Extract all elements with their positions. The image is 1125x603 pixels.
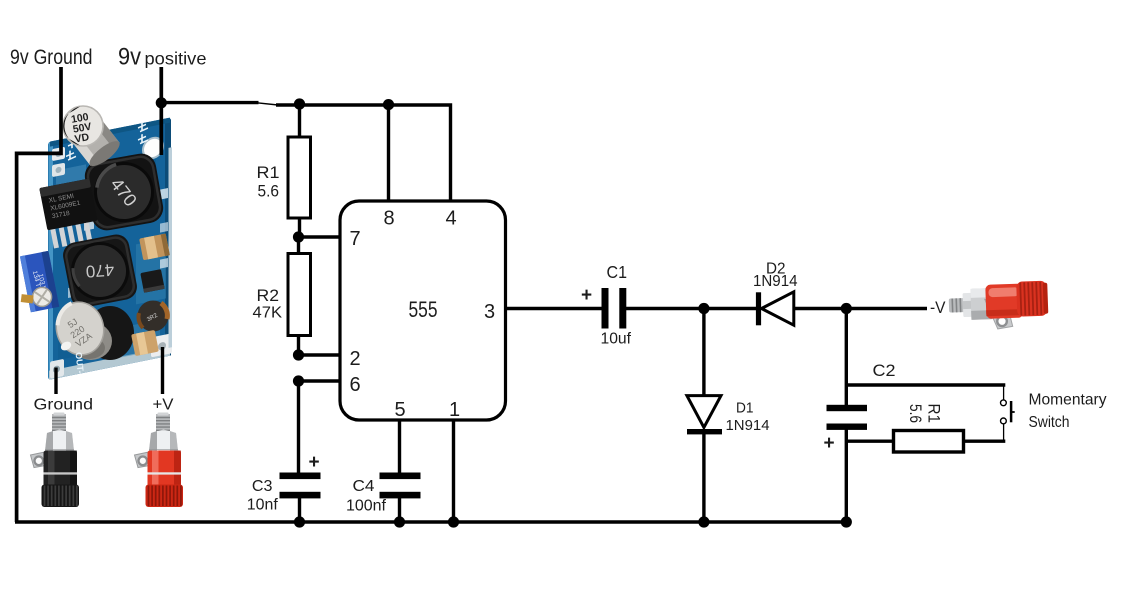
capacitor C4 plates <box>380 473 421 480</box>
trace patches <box>56 164 86 196</box>
svg-text:D1: D1 <box>736 400 754 417</box>
pad bottom-right <box>151 333 172 357</box>
wire C2 bottom branch to R1b <box>846 440 893 443</box>
resistor R1b (5.6 output) <box>894 431 964 453</box>
label R1b rotated <box>906 404 944 424</box>
svg-text:1N914: 1N914 <box>753 273 798 290</box>
wire R2 top lead <box>297 237 300 254</box>
svg-text:+: + <box>581 285 592 306</box>
wire pin 7 <box>299 235 341 238</box>
svg-text:9v: 9v <box>118 44 141 71</box>
node pin2 <box>293 349 304 360</box>
svg-text:R1: R1 <box>257 163 280 182</box>
wire C2 bottom lead to rail <box>845 430 848 523</box>
wire 9v positive drop <box>159 67 163 155</box>
wire C4 bottom lead <box>398 498 401 522</box>
wire R1 bottom lead <box>298 218 301 237</box>
black chip right <box>140 269 164 293</box>
svg-text:C3: C3 <box>252 478 273 495</box>
op-amp/timer IC U1 555 <box>340 201 506 420</box>
right edge pads <box>160 188 168 200</box>
wire C2 top lead <box>845 309 848 406</box>
wire pin 8 drop <box>387 105 390 201</box>
capacitor photo 220uF bottom <box>51 297 134 360</box>
wire pin6 node down to C3 <box>297 381 300 473</box>
svg-text:7: 7 <box>350 228 361 250</box>
svg-text:C4: C4 <box>353 478 375 495</box>
svg-text:+: + <box>824 433 835 454</box>
wire D1 top lead <box>702 309 705 397</box>
node R1 top <box>294 98 305 109</box>
pad bottom-left <box>50 359 64 379</box>
node rail C3 <box>294 516 305 527</box>
pads top-left <box>52 147 65 162</box>
resistor R1 (5.6) <box>288 137 311 218</box>
node pin6 <box>293 375 304 386</box>
wire node to D2 <box>704 307 757 310</box>
node D2/C2/-V <box>841 303 852 314</box>
IC XL6009 <box>39 178 101 249</box>
binding post Ground (black) <box>31 413 80 508</box>
wire pin 1 down to rail <box>452 420 455 522</box>
binding post +V (red) <box>135 413 184 508</box>
svg-text:5.6: 5.6 <box>258 183 280 201</box>
diode D1 (vertical) <box>687 396 722 435</box>
wire R1 top lead <box>298 103 301 137</box>
capacitor C1 plates <box>602 288 609 329</box>
wire 9v ground (down, left, down to bottom rail) <box>17 67 61 522</box>
svg-text:+: + <box>309 452 320 473</box>
svg-text:10uf: 10uf <box>601 331 632 348</box>
svg-text:Switch: Switch <box>1029 414 1070 431</box>
svg-text:+V: +V <box>153 397 174 414</box>
svg-text:positive: positive <box>145 49 207 69</box>
inductor 470 bottom <box>61 232 139 310</box>
wire C3 bottom lead <box>298 498 301 522</box>
switch SW1 momentary <box>1001 400 1015 424</box>
inductor 470 top <box>82 151 165 232</box>
wire node2 to -V terminal <box>846 307 927 310</box>
svg-text:100nf: 100nf <box>346 498 387 515</box>
resistor R2 (47K) <box>288 254 311 336</box>
svg-text:47K: 47K <box>253 305 283 322</box>
wire D1 bottom lead to rail <box>702 430 705 522</box>
svg-text:5.6: 5.6 <box>906 404 924 423</box>
mounting hole top-right <box>143 136 163 160</box>
node rail D1 <box>698 516 709 527</box>
tan capacitor right <box>139 234 170 261</box>
silkscreen marks near hole <box>66 121 148 160</box>
svg-text:Momentary: Momentary <box>1029 392 1107 409</box>
wire pin 6 <box>299 379 341 382</box>
svg-text:VD: VD <box>74 131 91 145</box>
wire C1 to node <box>626 307 704 310</box>
wire pin 3 to C1 <box>506 307 603 310</box>
trimpot <box>12 251 59 314</box>
svg-text:-V: -V <box>930 298 946 317</box>
wire pin 2 <box>299 353 341 356</box>
wire D2 to node2 <box>794 307 847 310</box>
svg-text:1: 1 <box>449 399 460 421</box>
wire top rail right segment to pin 4 <box>276 105 451 201</box>
node 9v positive junction <box>156 97 167 108</box>
wire R2 bottom lead <box>297 336 300 356</box>
svg-text:10nf: 10nf <box>247 497 279 514</box>
capacitor photo 100uF 50V <box>63 106 123 170</box>
svg-text:6: 6 <box>350 374 361 396</box>
wire +V post lead <box>161 347 164 394</box>
diode D2 (horizontal, pointing left) <box>756 292 794 326</box>
wire switch top thin lead <box>1003 386 1005 400</box>
wire bottom ground rail <box>15 520 846 523</box>
svg-text:470: 470 <box>85 260 115 281</box>
svg-text:4: 4 <box>446 208 457 230</box>
node rail pin1 <box>448 516 459 527</box>
svg-text:555: 555 <box>409 297 438 322</box>
wire ground post lead <box>54 368 57 395</box>
svg-text:C2: C2 <box>873 361 896 380</box>
svg-text:R2: R2 <box>257 286 280 305</box>
node C1/D1/D2 <box>698 303 709 314</box>
svg-text:R1: R1 <box>925 404 944 424</box>
capacitor C2 plates <box>827 405 868 411</box>
node rail C4 <box>394 516 405 527</box>
wire top rail left segment <box>161 101 258 104</box>
wire pin 5 down to C4 <box>398 420 401 473</box>
node pin8 top <box>383 99 394 110</box>
copper toroid bottom-right <box>138 301 169 332</box>
wire top rail joint <box>257 103 278 105</box>
svg-text:5: 5 <box>395 399 406 421</box>
svg-text:C1: C1 <box>607 262 628 282</box>
node rail C2 <box>841 516 852 527</box>
tan capacitor bottom <box>131 330 159 356</box>
node R1/R2/pin7 <box>293 231 304 242</box>
pcb board <box>48 116 172 380</box>
wire switch bottom thin lead <box>1003 424 1005 440</box>
svg-text:9v Ground: 9v Ground <box>10 46 93 69</box>
wire R1b to switch bottom <box>964 440 1006 443</box>
svg-text:Ground: Ground <box>34 397 94 414</box>
capacitor C3 plates <box>280 473 321 480</box>
wire C2 branch to switch top <box>846 383 1005 386</box>
svg-text:8: 8 <box>384 208 395 230</box>
svg-text:1N914: 1N914 <box>726 418 770 434</box>
svg-text:2: 2 <box>350 348 361 370</box>
binding post -V (red, horizontal) <box>948 281 1049 331</box>
svg-text:3: 3 <box>484 301 495 323</box>
